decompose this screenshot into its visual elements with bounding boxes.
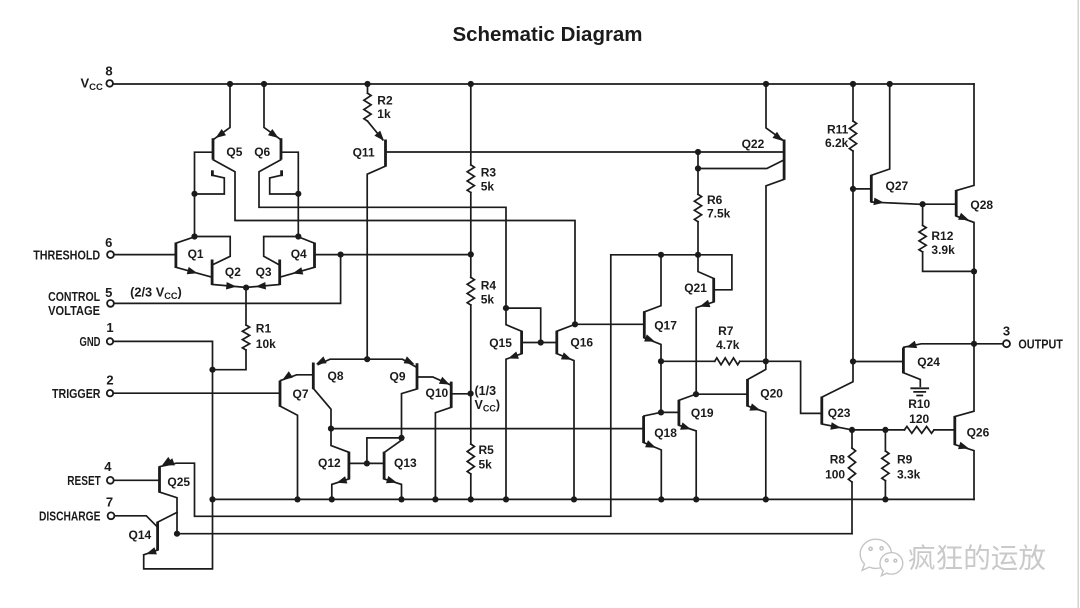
svg-text:10k: 10k — [256, 337, 276, 351]
transistor Q12 — [318, 429, 383, 480]
svg-text:Q12: Q12 — [318, 456, 341, 470]
svg-text:Q4: Q4 — [291, 247, 307, 261]
wire Q4 base to R3/R4 junction — [315, 254, 471, 256]
svg-text:Q2: Q2 — [225, 265, 241, 279]
svg-text:5k: 5k — [481, 293, 495, 307]
svg-text:DISCHARGE: DISCHARGE — [39, 508, 101, 523]
pin 5 CONTROL VOLTAGE terminal — [48, 285, 114, 318]
transistor Q19 — [679, 394, 714, 425]
transistor Q25 — [160, 457, 191, 493]
transistor Q15 — [489, 305, 556, 354]
svg-text:R3: R3 — [481, 166, 497, 180]
node Q17 emitter / Q18 collector / Q19 base junction — [658, 409, 664, 415]
svg-text:THRESHOLD: THRESHOLD — [33, 247, 100, 262]
pin 6 THRESHOLD terminal — [33, 235, 114, 262]
wire Q9 collector to mirror junction — [402, 389, 417, 438]
transistor Q4 — [280, 237, 315, 277]
svg-text:RESET: RESET — [67, 473, 101, 488]
svg-text:Q18: Q18 — [654, 426, 677, 440]
pin 2 TRIGGER terminal — [52, 372, 114, 400]
ground symbol below Q24 — [910, 388, 929, 395]
wire Q22 collector down to R7 node — [766, 180, 784, 362]
wire R7 to Q20 collector node then Q23 base — [740, 358, 821, 413]
svg-text:3: 3 — [1003, 324, 1010, 339]
node Q16 collector junction — [572, 321, 578, 327]
wire CONTROL VOLTAGE to divider node — [114, 252, 344, 304]
svg-text:3.3k: 3.3k — [897, 468, 921, 482]
transistor Q5 — [191, 129, 242, 197]
value label R1 10k — [256, 322, 276, 351]
wire Q18 base-collector junction to Q19 base — [661, 411, 678, 413]
wire Q11 collector to Q8/Q9 emitters — [367, 166, 385, 359]
wire Q13 emitter to ground rail — [385, 476, 402, 499]
transistor Q10 — [426, 382, 471, 408]
wire Q27 emitter to Q28 base node — [872, 198, 926, 208]
transistor Q1 — [176, 237, 212, 277]
transistor Q23 — [822, 397, 851, 425]
svg-text:5k: 5k — [481, 180, 495, 194]
resistor R4 5k — [467, 254, 474, 396]
transistor Q9 — [390, 356, 450, 389]
svg-text:Schematic Diagram: Schematic Diagram — [453, 23, 643, 46]
svg-text:R8: R8 — [830, 453, 846, 467]
transistor Q27 — [871, 84, 908, 202]
wire Q20 emitter to ground rail — [748, 403, 766, 499]
svg-text:Q6: Q6 — [254, 145, 270, 159]
resistor R8 100 — [848, 430, 855, 534]
pin 3 OUTPUT terminal — [1003, 324, 1063, 352]
wire common emitter rail — [209, 496, 974, 502]
wire Q28 base — [923, 203, 956, 205]
wire output node to pin 3 — [974, 343, 1003, 345]
resistor R7 4.7k — [715, 358, 740, 365]
svg-text:Q24: Q24 — [917, 355, 940, 369]
svg-text:6.2k: 6.2k — [825, 136, 849, 150]
svg-text:Q3: Q3 — [256, 265, 272, 279]
wire Q25 collector down — [160, 492, 177, 534]
svg-text:Q27: Q27 — [886, 179, 909, 193]
transistor Q18 — [644, 412, 678, 443]
value label R8 100 — [825, 453, 845, 482]
svg-text:Q17: Q17 — [654, 319, 677, 333]
svg-text:TRIGGER: TRIGGER — [52, 386, 101, 401]
node Q4/Q3 collector junction — [295, 233, 301, 239]
node Q2/Q3 emitter junction (2/3 Vcc) — [243, 285, 249, 291]
node label (1/3 Vcc) — [475, 384, 501, 413]
transistor Q7 — [280, 371, 313, 406]
wire Q11 base to R6 top — [386, 151, 699, 153]
wire Q7 collector to ground rail — [280, 406, 297, 499]
wire Q10 collector to ground rail — [435, 408, 450, 500]
wire Q21 emitter to Q19 collector / Q20 base node — [693, 300, 713, 398]
transistor Q17 — [644, 255, 677, 339]
wire DISCHARGE to Q14 base — [115, 516, 158, 527]
wire Q23 emitter junction — [822, 422, 855, 433]
wire Q3 collector loop — [264, 237, 299, 265]
wire Q17 emitter down through R7 node — [644, 334, 664, 412]
wire Q19 emitter to ground rail — [679, 422, 696, 499]
transistor Q11 — [353, 131, 386, 167]
transistor Q8 — [313, 356, 344, 389]
svg-text:Q16: Q16 — [570, 335, 593, 349]
wire Q15 emitter to ground rail — [506, 352, 521, 500]
pin 7 DISCHARGE terminal — [39, 494, 114, 523]
wire Q28 emitter down to output node — [957, 213, 978, 344]
wire TRIGGER to Q7 base — [113, 392, 279, 394]
svg-text:Q9: Q9 — [390, 370, 406, 384]
page right edge line — [1077, 0, 1079, 608]
svg-text:5: 5 — [105, 285, 112, 300]
wire tent to Q9 emitter — [367, 359, 416, 367]
transistor Q2 — [212, 260, 246, 290]
svg-text:Q19: Q19 — [691, 406, 714, 420]
svg-text:Q7: Q7 — [293, 387, 309, 401]
resistor R6 7.5k — [694, 149, 701, 255]
svg-text:R11: R11 — [827, 123, 849, 137]
svg-text:R12: R12 — [931, 229, 953, 243]
wire Q8 collector to mirror — [314, 389, 331, 429]
svg-text:疯狂的运放: 疯狂的运放 — [908, 543, 1046, 574]
svg-text:3.9k: 3.9k — [931, 243, 955, 257]
wire Q24 base from Q23 collector riser — [853, 361, 902, 363]
wire RESET to Q25 base — [114, 479, 159, 481]
node Q13/Q9 collector junction — [398, 435, 404, 441]
wire Q6 base node to Q4 collector — [297, 194, 299, 237]
pin 4 RESET terminal — [67, 459, 113, 488]
transistor Q20 — [748, 361, 784, 406]
pin 1 GND terminal — [80, 320, 114, 349]
wire Q26 emitter to ground rail corner — [955, 442, 974, 500]
svg-text:Q25: Q25 — [167, 475, 190, 489]
transistor Q28 — [956, 84, 993, 217]
wire VCC rail (pin 8 across top) — [113, 81, 974, 87]
node Q1/Q2 collector junction — [191, 233, 197, 239]
svg-text:4.7k: 4.7k — [716, 338, 740, 352]
wire Q5 emitter from VCC rail — [214, 84, 230, 139]
wire Q20 base — [696, 393, 747, 395]
wire Q25/Q14 collector line to R8 bottom — [174, 531, 852, 537]
svg-text:Q15: Q15 — [489, 336, 512, 350]
svg-text:OUTPUT: OUTPUT — [1018, 336, 1063, 351]
wire Q23 collector up to Q27 base / R11 (Q24 base tap) — [822, 186, 856, 397]
node output junction — [971, 341, 977, 347]
watermark logo and text — [860, 539, 1046, 576]
svg-text:R2: R2 — [377, 94, 393, 108]
resistor R1 10k — [213, 288, 250, 370]
value label R7 4.7k — [716, 324, 740, 352]
resistor R11 6.2k — [849, 84, 856, 189]
value label R4 5k — [481, 279, 497, 307]
value label R6 7.5k — [707, 193, 731, 221]
transistor Q21 — [684, 255, 714, 303]
wire Q5 base node to Q1 collector — [194, 194, 196, 237]
wire Q23 emitter to R9/R10 — [852, 427, 889, 433]
wire Q6 emitter from VCC rail — [264, 84, 280, 139]
svg-text:R5: R5 — [479, 443, 495, 457]
svg-text:1: 1 — [106, 320, 113, 335]
svg-text:Q14: Q14 — [129, 528, 152, 542]
svg-text:8: 8 — [105, 64, 112, 79]
wire Q17 emitter node to R7 — [661, 360, 715, 362]
svg-text:5k: 5k — [479, 458, 493, 472]
pin 8 VCC terminal — [81, 64, 113, 94]
wire Q18 emitter to ground rail — [644, 440, 661, 499]
svg-text:7.5k: 7.5k — [707, 207, 731, 221]
svg-text:2: 2 — [106, 372, 113, 387]
transistor Q14 — [129, 512, 178, 550]
wire THRESHOLD to Q1 base — [114, 254, 175, 256]
transistor Q13 — [384, 440, 417, 479]
svg-text:4: 4 — [104, 459, 112, 474]
transistor Q22 — [698, 84, 784, 180]
svg-text:Q10: Q10 — [426, 386, 449, 400]
value label R11 6.2k — [825, 123, 849, 151]
value label R5 5k — [479, 443, 495, 472]
wire Q16 collector to Q17 base — [575, 323, 643, 325]
value label R12 3.9k — [931, 229, 955, 257]
wire GND net (pin 1 down and around to Q14 emitter) — [113, 341, 215, 569]
svg-text:Q8: Q8 — [328, 369, 344, 383]
svg-text:6: 6 — [105, 235, 112, 250]
svg-text:R9: R9 — [897, 453, 913, 467]
svg-text:(1/3: (1/3 — [475, 384, 497, 398]
wire Q16 emitter to ground rail — [557, 352, 574, 499]
transistor Q16 — [557, 324, 594, 354]
svg-text:Q26: Q26 — [967, 425, 990, 439]
svg-text:R1: R1 — [256, 322, 272, 336]
resistor R3 5k — [467, 84, 474, 258]
svg-text:GND: GND — [80, 334, 101, 349]
svg-text:1k: 1k — [377, 107, 391, 121]
svg-text:Q28: Q28 — [970, 198, 993, 212]
wire Q5 collector to Q16 collector — [213, 160, 575, 324]
resistor R5 5k — [467, 394, 474, 500]
transistor Q6 — [254, 129, 301, 197]
resistor R12 3.9k — [919, 204, 974, 271]
wire Q24 collector to ground symbol — [904, 373, 921, 386]
transistor Q3 — [246, 260, 280, 290]
svg-text:Q11: Q11 — [353, 146, 375, 160]
node Q8/Q9 emitter tent junction — [364, 356, 370, 362]
value label R9 3.3k — [897, 453, 921, 482]
transistor Q26 — [955, 344, 990, 445]
wire tent to Q8 emitter — [318, 359, 367, 364]
svg-text:VOLTAGE: VOLTAGE — [48, 303, 100, 318]
svg-text:R4: R4 — [481, 279, 497, 293]
wire Q14 emitter to GND return — [144, 547, 158, 555]
value label R3 5k — [481, 166, 497, 194]
wire Q17 collector / R6 / Q21 node — [611, 252, 732, 290]
resistor R2 1k — [364, 84, 383, 140]
resistor R10 120 — [885, 427, 953, 434]
resistor R9 3.3k — [882, 430, 889, 500]
wire Q6 collector to Q15 collector — [259, 160, 506, 308]
svg-text:CONTROL: CONTROL — [48, 289, 100, 304]
svg-text:Q21: Q21 — [684, 281, 707, 295]
wire Q12 emitter to ground rail — [332, 476, 349, 499]
svg-text:Q5: Q5 — [226, 145, 242, 159]
title: Schematic Diagram — [453, 23, 643, 46]
svg-text:Q13: Q13 — [394, 456, 417, 470]
svg-text:R7: R7 — [718, 324, 734, 338]
transistor Q24 — [903, 341, 974, 374]
wire Q8 collector / Q12 collector to Q18 base — [328, 426, 643, 432]
node label (2/3 Vcc) — [130, 285, 182, 302]
svg-text:7: 7 — [106, 494, 113, 509]
wire discharge node riser to Q25 emitter — [160, 255, 611, 517]
svg-text:100: 100 — [825, 468, 845, 482]
svg-text:R10: R10 — [908, 397, 930, 411]
svg-text:Q1: Q1 — [188, 247, 204, 261]
svg-text:Q22: Q22 — [742, 137, 765, 151]
svg-text:Q20: Q20 — [760, 386, 783, 400]
value label R10 120 — [908, 397, 930, 426]
value label R2 1k — [377, 94, 393, 122]
wire Q13 collector to base hook — [364, 438, 402, 467]
wire Q27 base — [853, 188, 870, 190]
wire Q2 collector loop — [195, 237, 231, 265]
svg-text:120: 120 — [909, 412, 929, 426]
svg-text:Q23: Q23 — [828, 406, 851, 420]
svg-text:R6: R6 — [707, 193, 723, 207]
